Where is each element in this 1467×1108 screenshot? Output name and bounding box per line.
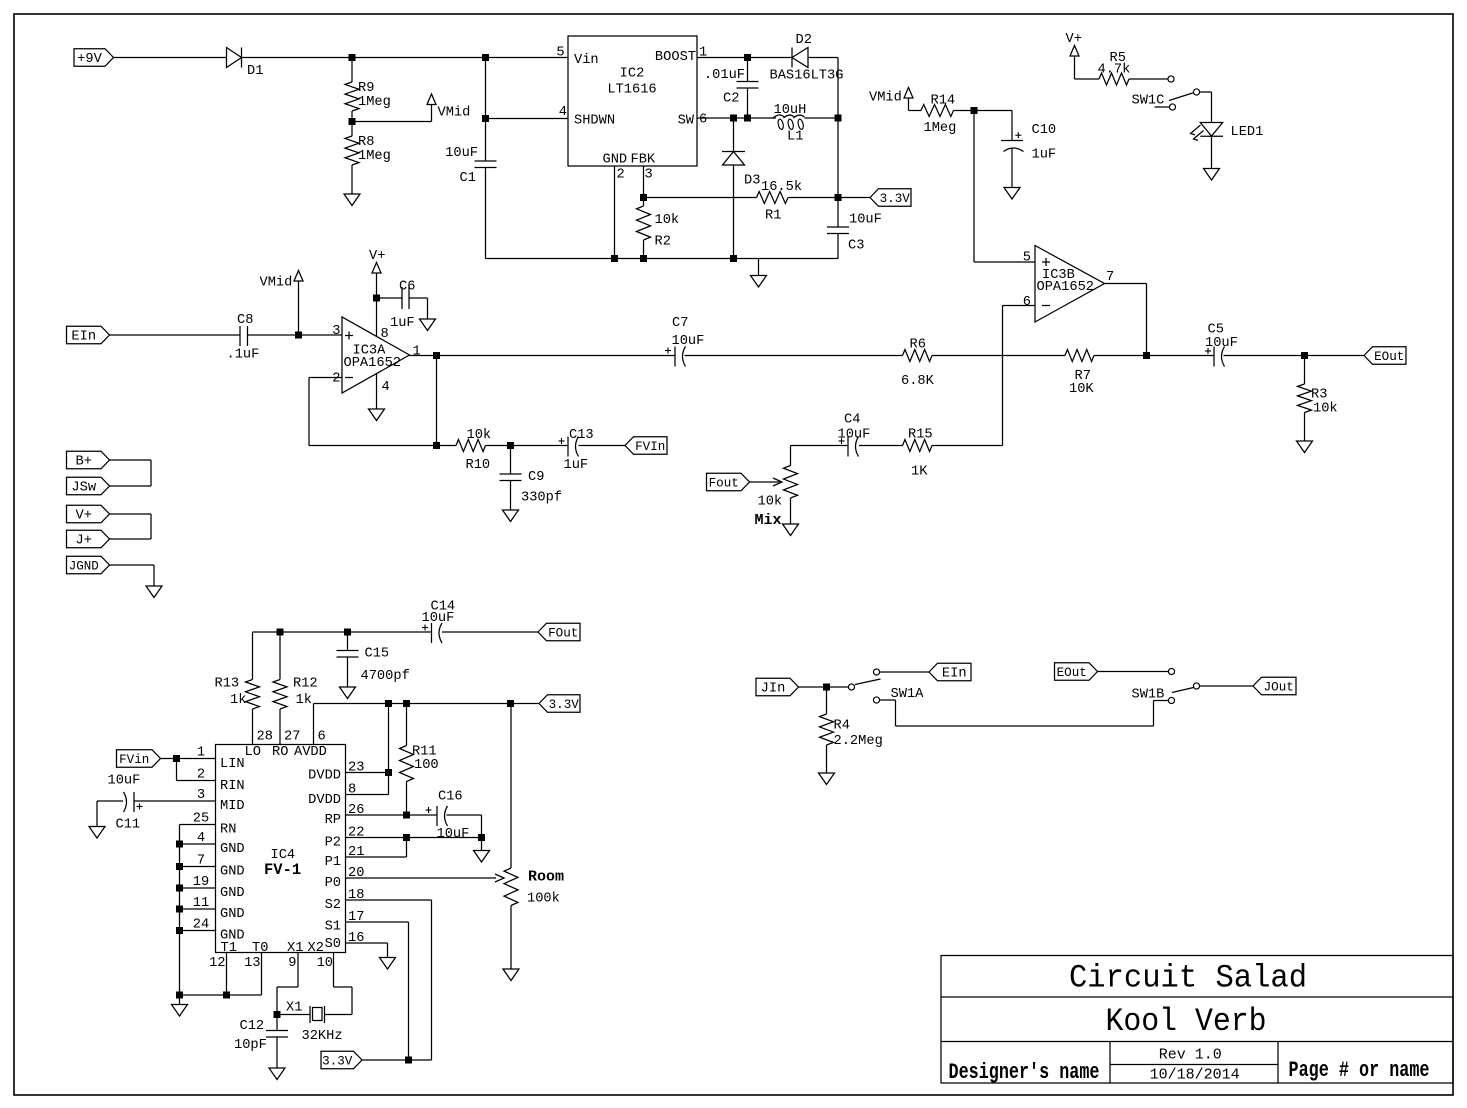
svg-text:10uF: 10uF: [445, 146, 478, 161]
capacitor C3: [837, 198, 839, 228]
GND bus pin25: [180, 824, 216, 826]
ground S0: [380, 958, 396, 970]
resistor R14 1Meg: [909, 110, 922, 112]
capacitor C14 10uF: [431, 623, 433, 643]
svg-text:13: 13: [244, 956, 260, 971]
svg-text:R4: R4: [834, 719, 850, 734]
node VMid divider: [351, 111, 353, 122]
wire out to C7: [437, 355, 676, 357]
svg-text:RIN: RIN: [220, 779, 245, 794]
resistor R2 10k: [643, 198, 645, 207]
svg-text:C13: C13: [569, 428, 594, 443]
svg-text:2: 2: [332, 372, 340, 387]
svg-text:D2: D2: [796, 33, 812, 48]
wire S2: [346, 899, 432, 901]
svg-text:JGND: JGND: [69, 560, 99, 574]
svg-text:GND: GND: [220, 907, 245, 922]
resistor R12 1k: [279, 632, 281, 680]
svg-text:JIn: JIn: [761, 682, 786, 697]
wire: [511, 445, 569, 447]
inductor L1 10uH: [773, 115, 785, 118]
capacitor C2: [747, 58, 749, 82]
wire: [486, 445, 511, 447]
svg-text:V+: V+: [369, 249, 385, 264]
wire: [248, 334, 343, 336]
wire to C10: [974, 110, 1012, 112]
wire: [110, 538, 152, 540]
svg-text:16.5k: 16.5k: [761, 180, 802, 195]
flag B+: [67, 451, 110, 469]
wire to EIn: [879, 671, 929, 673]
svg-text:EIn: EIn: [71, 330, 96, 345]
svg-text:P2: P2: [325, 836, 341, 851]
wire SW1A lower throw: [879, 699, 896, 701]
svg-text:AVDD: AVDD: [294, 745, 327, 760]
svg-text:8: 8: [348, 783, 356, 798]
wire: [1224, 355, 1365, 357]
ground: [269, 1068, 285, 1080]
ground: [340, 687, 356, 699]
wire + ground C11: [97, 800, 123, 802]
svg-text:10k: 10k: [655, 213, 680, 228]
node out A: [433, 352, 440, 359]
svg-text:GND: GND: [220, 886, 245, 901]
wire GND pin2: [614, 166, 616, 259]
svg-text:R14: R14: [931, 94, 956, 109]
capacitor C8 .1uF: [239, 326, 241, 346]
svg-text:1Meg: 1Meg: [358, 149, 391, 164]
wire P2: [346, 837, 482, 839]
capacitor C12 10pF: [276, 1015, 278, 1031]
svg-text:C4: C4: [844, 413, 860, 428]
ground: [1304, 413, 1306, 442]
svg-text:T0: T0: [252, 941, 268, 956]
wire: [442, 631, 538, 633]
wire SW: [697, 117, 776, 119]
wire: [1199, 91, 1211, 93]
svg-text:C2: C2: [723, 92, 739, 107]
capacitor C5 10uF: [1213, 347, 1215, 367]
svg-text:10: 10: [317, 956, 333, 971]
svg-text:C16: C16: [438, 790, 463, 805]
svg-text:R15: R15: [908, 428, 933, 443]
node fb A: [433, 442, 440, 449]
svg-text:R13: R13: [215, 677, 240, 692]
svg-text:10uF: 10uF: [108, 774, 141, 789]
capacitor C4 10uF: [859, 445, 903, 447]
svg-text:C12: C12: [240, 1019, 265, 1034]
wire SW-out down: [837, 118, 839, 198]
wire 3.3V rail: [314, 703, 540, 705]
ground rail: [486, 258, 839, 260]
node out B: [1143, 352, 1150, 359]
wire: [1098, 671, 1169, 673]
svg-text:LIN: LIN: [220, 757, 245, 772]
flag 3.3V mid: [539, 695, 580, 713]
svg-text:BAS16LT3G: BAS16LT3G: [770, 69, 844, 84]
wire: [932, 355, 1065, 357]
svg-text:.1uF: .1uF: [227, 348, 260, 363]
svg-text:5: 5: [556, 46, 564, 61]
VMid tap arrow: [352, 121, 432, 123]
svg-text:Mix: Mix: [755, 512, 782, 529]
svg-text:OPA1652: OPA1652: [1037, 280, 1095, 295]
svg-text:X1: X1: [287, 941, 303, 956]
svg-text:10k: 10k: [758, 495, 783, 510]
node R12 top: [277, 629, 284, 636]
svg-text:VMid: VMid: [260, 276, 293, 291]
flag EOut bottom: [1055, 663, 1098, 681]
node 9V-B: [482, 54, 489, 61]
wire BOOST: [697, 57, 792, 59]
svg-text:10uH: 10uH: [774, 103, 807, 118]
chip IC4 FV-1: [216, 745, 346, 953]
ground: [758, 259, 760, 276]
node V+ pin8: [373, 295, 380, 302]
node SW-C2: [744, 115, 751, 122]
svg-text:6: 6: [318, 730, 326, 745]
flag FOut: [538, 623, 580, 641]
wire VMid to IC3B +: [973, 111, 975, 263]
svg-text:DVDD: DVDD: [308, 793, 341, 808]
capacitor C1: [485, 58, 487, 162]
wire to JOut: [1199, 685, 1253, 687]
svg-text:C1: C1: [460, 171, 476, 186]
gnd pin24: [176, 927, 183, 934]
svg-text:17: 17: [348, 910, 364, 925]
wire AVDD: [313, 704, 315, 745]
pin4 ground: [376, 374, 378, 410]
flag V+: [67, 505, 110, 523]
flag FVin: [117, 750, 161, 768]
pot wiper arrow: [750, 481, 781, 483]
svg-text:10/18/2014: 10/18/2014: [1150, 1067, 1240, 1084]
node S1-3.3V: [405, 1057, 412, 1064]
svg-text:Kool Verb: Kool Verb: [1106, 1003, 1267, 1040]
svg-text:9: 9: [288, 956, 296, 971]
svg-text:6.8K: 6.8K: [901, 374, 935, 389]
svg-text:.01uF: .01uF: [704, 68, 745, 83]
wire: [110, 485, 152, 487]
wire: [362, 1059, 432, 1061]
resistor R11 100: [406, 704, 408, 746]
capacitor C6 1uF: [377, 297, 403, 299]
wire pin2: [176, 759, 178, 781]
svg-text:FBK: FBK: [631, 153, 656, 168]
svg-text:16: 16: [348, 931, 364, 946]
svg-text:OPA1652: OPA1652: [344, 356, 402, 371]
wire: [1094, 355, 1214, 357]
svg-text:1: 1: [413, 345, 421, 360]
svg-text:6: 6: [1023, 295, 1031, 310]
svg-text:C10: C10: [1032, 123, 1057, 138]
resistor R10 10k: [437, 445, 457, 447]
svg-text:1: 1: [699, 46, 707, 61]
svg-text:SHDWN: SHDWN: [574, 114, 615, 129]
svg-text:FVIn: FVIn: [635, 440, 665, 454]
node X1: [274, 1011, 281, 1018]
svg-text:10uF: 10uF: [437, 827, 470, 842]
svg-text:BOOST: BOOST: [655, 50, 696, 65]
wire: [806, 117, 838, 119]
wire C16 to gnd: [447, 814, 482, 816]
svg-text:3: 3: [332, 324, 340, 339]
svg-text:10uF: 10uF: [672, 334, 705, 349]
output wire: [410, 355, 437, 357]
flag JOut: [1253, 677, 1296, 695]
node P2-P1: [403, 834, 410, 841]
ground: [179, 995, 181, 1005]
svg-text:X2: X2: [308, 941, 324, 956]
svg-text:FV-1: FV-1: [264, 861, 301, 879]
svg-text:26: 26: [348, 803, 364, 818]
capacitor C13 1uF: [567, 437, 569, 457]
svg-text:4: 4: [382, 380, 390, 395]
resistor R1 16.5k: [644, 197, 757, 199]
flag JGND: [67, 556, 110, 574]
svg-text:JSw: JSw: [71, 481, 96, 496]
svg-text:22: 22: [348, 826, 364, 841]
wire FBK: [643, 166, 645, 198]
diode D3: [733, 118, 735, 152]
node SW-D3: [730, 115, 737, 122]
wire: [808, 57, 838, 59]
svg-text:R2: R2: [655, 235, 671, 250]
wire: [1129, 78, 1168, 80]
node BOOST-C2: [744, 54, 751, 61]
resistor R4 2.2Meg: [826, 687, 828, 714]
wire DVDD: [388, 704, 390, 773]
wire pot to C4: [791, 445, 849, 447]
crystal X1 32KHz: [277, 1014, 310, 1016]
potentiometer Room 100k: [510, 704, 512, 869]
svg-text:3: 3: [645, 168, 653, 183]
svg-text:Page # or name: Page # or name: [1289, 1058, 1430, 1083]
flag +9V: [74, 49, 114, 67]
svg-text:R8: R8: [358, 135, 374, 150]
wire: [110, 459, 152, 461]
diode D1: [227, 48, 242, 68]
node VMid-in: [295, 332, 302, 339]
svg-text:R3: R3: [1311, 388, 1327, 403]
wire: [242, 57, 569, 59]
flag J+: [67, 530, 110, 548]
node DVDD: [385, 769, 392, 776]
ground: [503, 510, 519, 522]
svg-text:GND: GND: [220, 865, 245, 880]
title block frame: [941, 956, 1453, 1084]
svg-text:GND: GND: [220, 842, 245, 857]
pin6 feedback vertical: [1003, 305, 1036, 307]
flag EOut: [1364, 347, 1406, 365]
svg-text:T1: T1: [221, 941, 237, 956]
svg-text:EOut: EOut: [1374, 350, 1404, 364]
svg-text:10k: 10k: [467, 428, 492, 443]
diode D2 BAS16LT3G: [791, 48, 793, 68]
svg-text:VMid: VMid: [869, 91, 902, 106]
wire: [110, 334, 241, 336]
svg-text:P1: P1: [325, 855, 341, 870]
svg-text:DVDD: DVDD: [308, 769, 341, 784]
capacitor C7 10uF: [674, 347, 676, 367]
wire: [110, 513, 152, 515]
pot wiper arrow Room: [495, 874, 504, 882]
gnd pin7: [176, 863, 183, 870]
LED1: [1200, 123, 1222, 137]
wire SHDWN: [486, 118, 569, 120]
regulator IC2 LT1616: [568, 36, 697, 166]
node 9V-A: [349, 54, 356, 61]
svg-text:EOut: EOut: [1057, 666, 1087, 680]
svg-text:V+: V+: [76, 509, 92, 524]
wire pin10 to crystal: [351, 987, 353, 1015]
svg-text:Vin: Vin: [574, 53, 599, 68]
flag JSw: [67, 477, 110, 495]
svg-text:S0: S0: [325, 937, 341, 952]
svg-text:Fout: Fout: [709, 477, 739, 491]
svg-text:1uF: 1uF: [1032, 148, 1057, 163]
svg-text:10K: 10K: [1069, 382, 1094, 397]
gnd pin11: [176, 906, 183, 913]
svg-text:Rev 1.0: Rev 1.0: [1159, 1047, 1222, 1064]
ground: [351, 165, 353, 194]
svg-text:D1: D1: [247, 64, 263, 79]
svg-text:L1: L1: [787, 130, 803, 145]
svg-text:S1: S1: [325, 920, 341, 935]
capacitor C15 4700pf: [347, 632, 349, 651]
svg-text:8: 8: [381, 327, 389, 342]
svg-text:21: 21: [348, 845, 364, 860]
wire P0 to Room pot: [346, 877, 497, 879]
svg-text:20: 20: [348, 866, 364, 881]
svg-text:6: 6: [699, 113, 707, 128]
switch SW1A: [848, 684, 854, 690]
wire pin1: [161, 758, 216, 760]
svg-text:Designer's name: Designer's name: [949, 1060, 1100, 1085]
svg-text:C11: C11: [116, 818, 141, 833]
wire pin9 to crystal: [297, 953, 299, 988]
wire S0: [346, 942, 388, 944]
resistor R9: [351, 58, 353, 83]
svg-text:100: 100: [414, 758, 439, 773]
svg-text:R9: R9: [358, 81, 374, 96]
switch SW1B: [1168, 668, 1174, 674]
node bus corner: [176, 992, 183, 999]
VMid arrow: [298, 281, 300, 335]
flag 3.3V bottom: [321, 1051, 362, 1069]
svg-text:1k: 1k: [296, 693, 312, 708]
op-amp IC3A OPA1652: [342, 317, 410, 393]
flag EIn: [67, 326, 110, 344]
svg-text:LED1: LED1: [1231, 125, 1264, 140]
svg-text:S2: S2: [325, 898, 341, 913]
node P2-C16: [478, 834, 485, 841]
wire pin12: [226, 953, 228, 996]
switch SW1C: [1168, 76, 1174, 82]
svg-text:12: 12: [209, 956, 225, 971]
svg-text:Circuit Salad: Circuit Salad: [1069, 960, 1307, 997]
svg-text:SW1B: SW1B: [1132, 688, 1165, 703]
svg-text:7: 7: [1106, 270, 1114, 285]
capacitor C10 1uF: [1001, 140, 1023, 142]
svg-text:VMid: VMid: [438, 106, 471, 121]
svg-text:2: 2: [617, 168, 625, 183]
svg-text:SW1A: SW1A: [891, 687, 925, 702]
wire to 3.3V flag: [838, 197, 870, 199]
output wire pin7: [1105, 283, 1147, 285]
gnd pin19: [176, 885, 183, 892]
wire: [579, 445, 626, 447]
svg-text:3.3V: 3.3V: [549, 698, 580, 712]
op-amp IC3B OPA1652: [1035, 246, 1105, 323]
ground: [510, 906, 512, 970]
svg-text:C6: C6: [399, 280, 415, 295]
svg-text:P0: P0: [325, 876, 341, 891]
svg-text:27: 27: [284, 730, 300, 745]
node 3.3V: [835, 194, 842, 201]
svg-text:RO: RO: [272, 745, 288, 760]
wire pin13: [261, 953, 263, 996]
ground: [481, 838, 483, 851]
svg-text:1Meg: 1Meg: [924, 121, 957, 136]
ground: [790, 498, 792, 524]
svg-text:R6: R6: [910, 338, 926, 353]
node JIn: [823, 684, 830, 691]
node C15 top: [344, 629, 351, 636]
svg-text:R12: R12: [293, 677, 318, 692]
wire DVDD pins: [346, 772, 389, 774]
node RP-R11: [403, 812, 410, 819]
potentiometer Mix 10k: [784, 466, 798, 499]
svg-text:MID: MID: [220, 799, 245, 814]
svg-text:SW1C: SW1C: [1132, 94, 1165, 109]
wire RP: [346, 814, 438, 816]
svg-text:1Meg: 1Meg: [358, 95, 391, 110]
ground: [1011, 148, 1013, 188]
capacitor C9 330pf: [510, 446, 512, 475]
wire R15 to pin6: [932, 445, 1003, 447]
svg-text:4700pf: 4700pf: [361, 669, 410, 684]
svg-text:10k: 10k: [1313, 402, 1338, 417]
wire: [799, 686, 849, 688]
svg-text:LO: LO: [245, 745, 261, 760]
svg-text:4.7k: 4.7k: [1098, 63, 1131, 78]
resistor R8: [351, 122, 353, 137]
capacitor C11 10uF: [134, 800, 216, 802]
svg-text:1uF: 1uF: [564, 458, 589, 473]
svg-text:RP: RP: [325, 813, 341, 828]
svg-text:100k: 100k: [527, 892, 560, 907]
flag JIn: [756, 678, 799, 696]
wire LO/RO rail: [253, 631, 432, 633]
node SHDWN: [482, 115, 489, 122]
node EOut: [1301, 352, 1308, 359]
svg-text:3.3V: 3.3V: [322, 1055, 353, 1069]
svg-text:C8: C8: [237, 313, 253, 328]
wire pin8: [346, 794, 389, 796]
svg-text:1uF: 1uF: [390, 316, 415, 331]
pin2 feedback wire: [309, 377, 342, 379]
svg-text:Room: Room: [528, 869, 564, 886]
svg-text:28: 28: [257, 730, 273, 745]
wire S1: [346, 921, 409, 923]
resistor R5 4.7k: [1099, 73, 1129, 85]
svg-text:C15: C15: [365, 647, 390, 662]
svg-text:C9: C9: [528, 470, 544, 485]
flag 3.3V: [870, 189, 911, 207]
node FBK: [640, 194, 647, 201]
flag Fout: [707, 473, 750, 491]
